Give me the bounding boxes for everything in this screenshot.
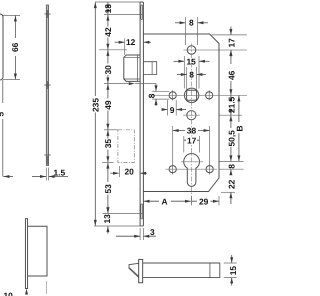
dim 12 (latch) [124, 39, 126, 56]
svg-text:66: 66 [10, 42, 20, 52]
svg-text:8: 8 [189, 17, 194, 27]
dim 20 [110, 172, 118, 174]
svg-text:13: 13 [103, 4, 113, 14]
dim 66 line and arrows [14, 16, 16, 79]
13 [107, 2, 109, 14]
right mid circle [206, 92, 213, 99]
faceplate cross-section [139, 259, 143, 282]
svg-text:15: 15 [228, 266, 238, 276]
svg-text:5: 5 [0, 112, 5, 117]
53 [107, 163, 109, 213]
hole below follower [187, 111, 196, 120]
euro profile cylinder [184, 154, 200, 187]
left overall dim line (clipped, text ...5) [2, 80, 4, 177]
dim 1.5 arrow and text [49, 176, 68, 178]
left mid circle [169, 92, 176, 99]
dim B (outer) [238, 96, 240, 162]
dim 3 (faceplate thickness, bottom) [140, 228, 143, 240]
dashed hidden box lower area [118, 130, 134, 163]
svg-text:235: 235 [90, 98, 100, 112]
dim 8 (square) [187, 67, 197, 90]
dim 17 (cylinder) [184, 136, 200, 153]
faceplate side view (long thin bar) [46, 5, 48, 166]
dim 15 (follower diameter) [184, 56, 199, 89]
svg-text:20: 20 [125, 167, 135, 177]
svg-text:38: 38 [187, 126, 197, 136]
svg-text:8: 8 [147, 93, 157, 98]
dim 1.5 extension lines below bar [46, 168, 48, 181]
svg-text:22: 22 [226, 179, 236, 189]
dim 46 [230, 50, 232, 95]
dim 8 vertical (left circle) [152, 91, 169, 99]
svg-text:8: 8 [226, 164, 236, 169]
svg-text:15: 15 [187, 56, 197, 66]
svg-text:29: 29 [199, 196, 209, 206]
35 [107, 130, 109, 162]
cylinder row side holes [169, 166, 176, 173]
svg-text:A: A [162, 196, 168, 206]
dust box [28, 226, 47, 276]
svg-text:9: 9 [170, 105, 175, 115]
top hole [187, 46, 196, 55]
svg-text:17: 17 [187, 135, 197, 145]
arrow toward faceplate side-view bar [32, 176, 46, 178]
lock case outline [143, 34, 219, 192]
svg-text:10: 10 [4, 291, 14, 296]
42 [107, 15, 109, 50]
svg-text:35: 35 [103, 139, 113, 149]
holes row center line [166, 168, 218, 170]
latch tail box [143, 62, 156, 75]
dim 8 (top hole) [186, 17, 198, 45]
faceplate [140, 2, 143, 226]
dims A and 29 (below case) [191, 196, 193, 206]
faceplate screw slots [141, 5, 143, 20]
dim 15 extension lines [224, 263, 237, 278]
dim 15 arrows outside [231, 255, 233, 286]
svg-text:3: 3 [150, 227, 155, 237]
clipped dimension text and arrow at bottom [26, 290, 28, 295]
svg-text:B: B [234, 125, 244, 131]
strike plate front view (top-left, clipped by image edge) [0, 14, 3, 80]
dim 38 [173, 126, 210, 165]
side view tick marks [44, 14, 50, 155]
svg-text:1.5: 1.5 [54, 167, 66, 177]
bottom horizontal arrow pair near x=3 [3, 176, 13, 178]
extension lines right [212, 35, 248, 192]
svg-text:53: 53 [103, 184, 113, 194]
dim 22 [230, 169, 232, 204]
arrowhead on 83.6 extension line [129, 82, 135, 85]
screw slots in side view [46, 10, 48, 18]
30 [107, 50, 109, 83]
follower row center line [153, 94, 248, 96]
dim 21.5 [230, 96, 232, 116]
svg-text:30: 30 [103, 65, 113, 75]
svg-text:17: 17 [226, 38, 236, 48]
divider [209, 263, 211, 278]
vertical center line [191, 44, 193, 206]
13 bottom (arrows outside) [107, 206, 109, 234]
49 [107, 84, 109, 130]
svg-text:49: 49 [103, 100, 113, 110]
dim 66 extension lines [3, 15, 20, 79]
svg-text:13: 13 [102, 214, 112, 224]
dim 17 right (arrows outside) [230, 27, 232, 58]
svg-text:46: 46 [226, 70, 236, 80]
extension line below box [46, 281, 48, 294]
svg-text:12: 12 [126, 37, 136, 47]
bolt head (bevel) [129, 263, 139, 277]
extension lines [94, 2, 156, 226]
bolt body [143, 263, 220, 278]
dim 9 [168, 100, 177, 116]
svg-text:42: 42 [103, 27, 113, 37]
svg-text:21.5: 21.5 [226, 96, 236, 113]
plate bar [25, 219, 27, 289]
svg-text:8: 8 [189, 70, 194, 80]
latch bolt head (front view, left of faceplate) [124, 55, 140, 81]
outer 235 line [94, 2, 96, 226]
follower (square spindle hub) [184, 88, 198, 102]
dim 50,5 [230, 115, 232, 161]
